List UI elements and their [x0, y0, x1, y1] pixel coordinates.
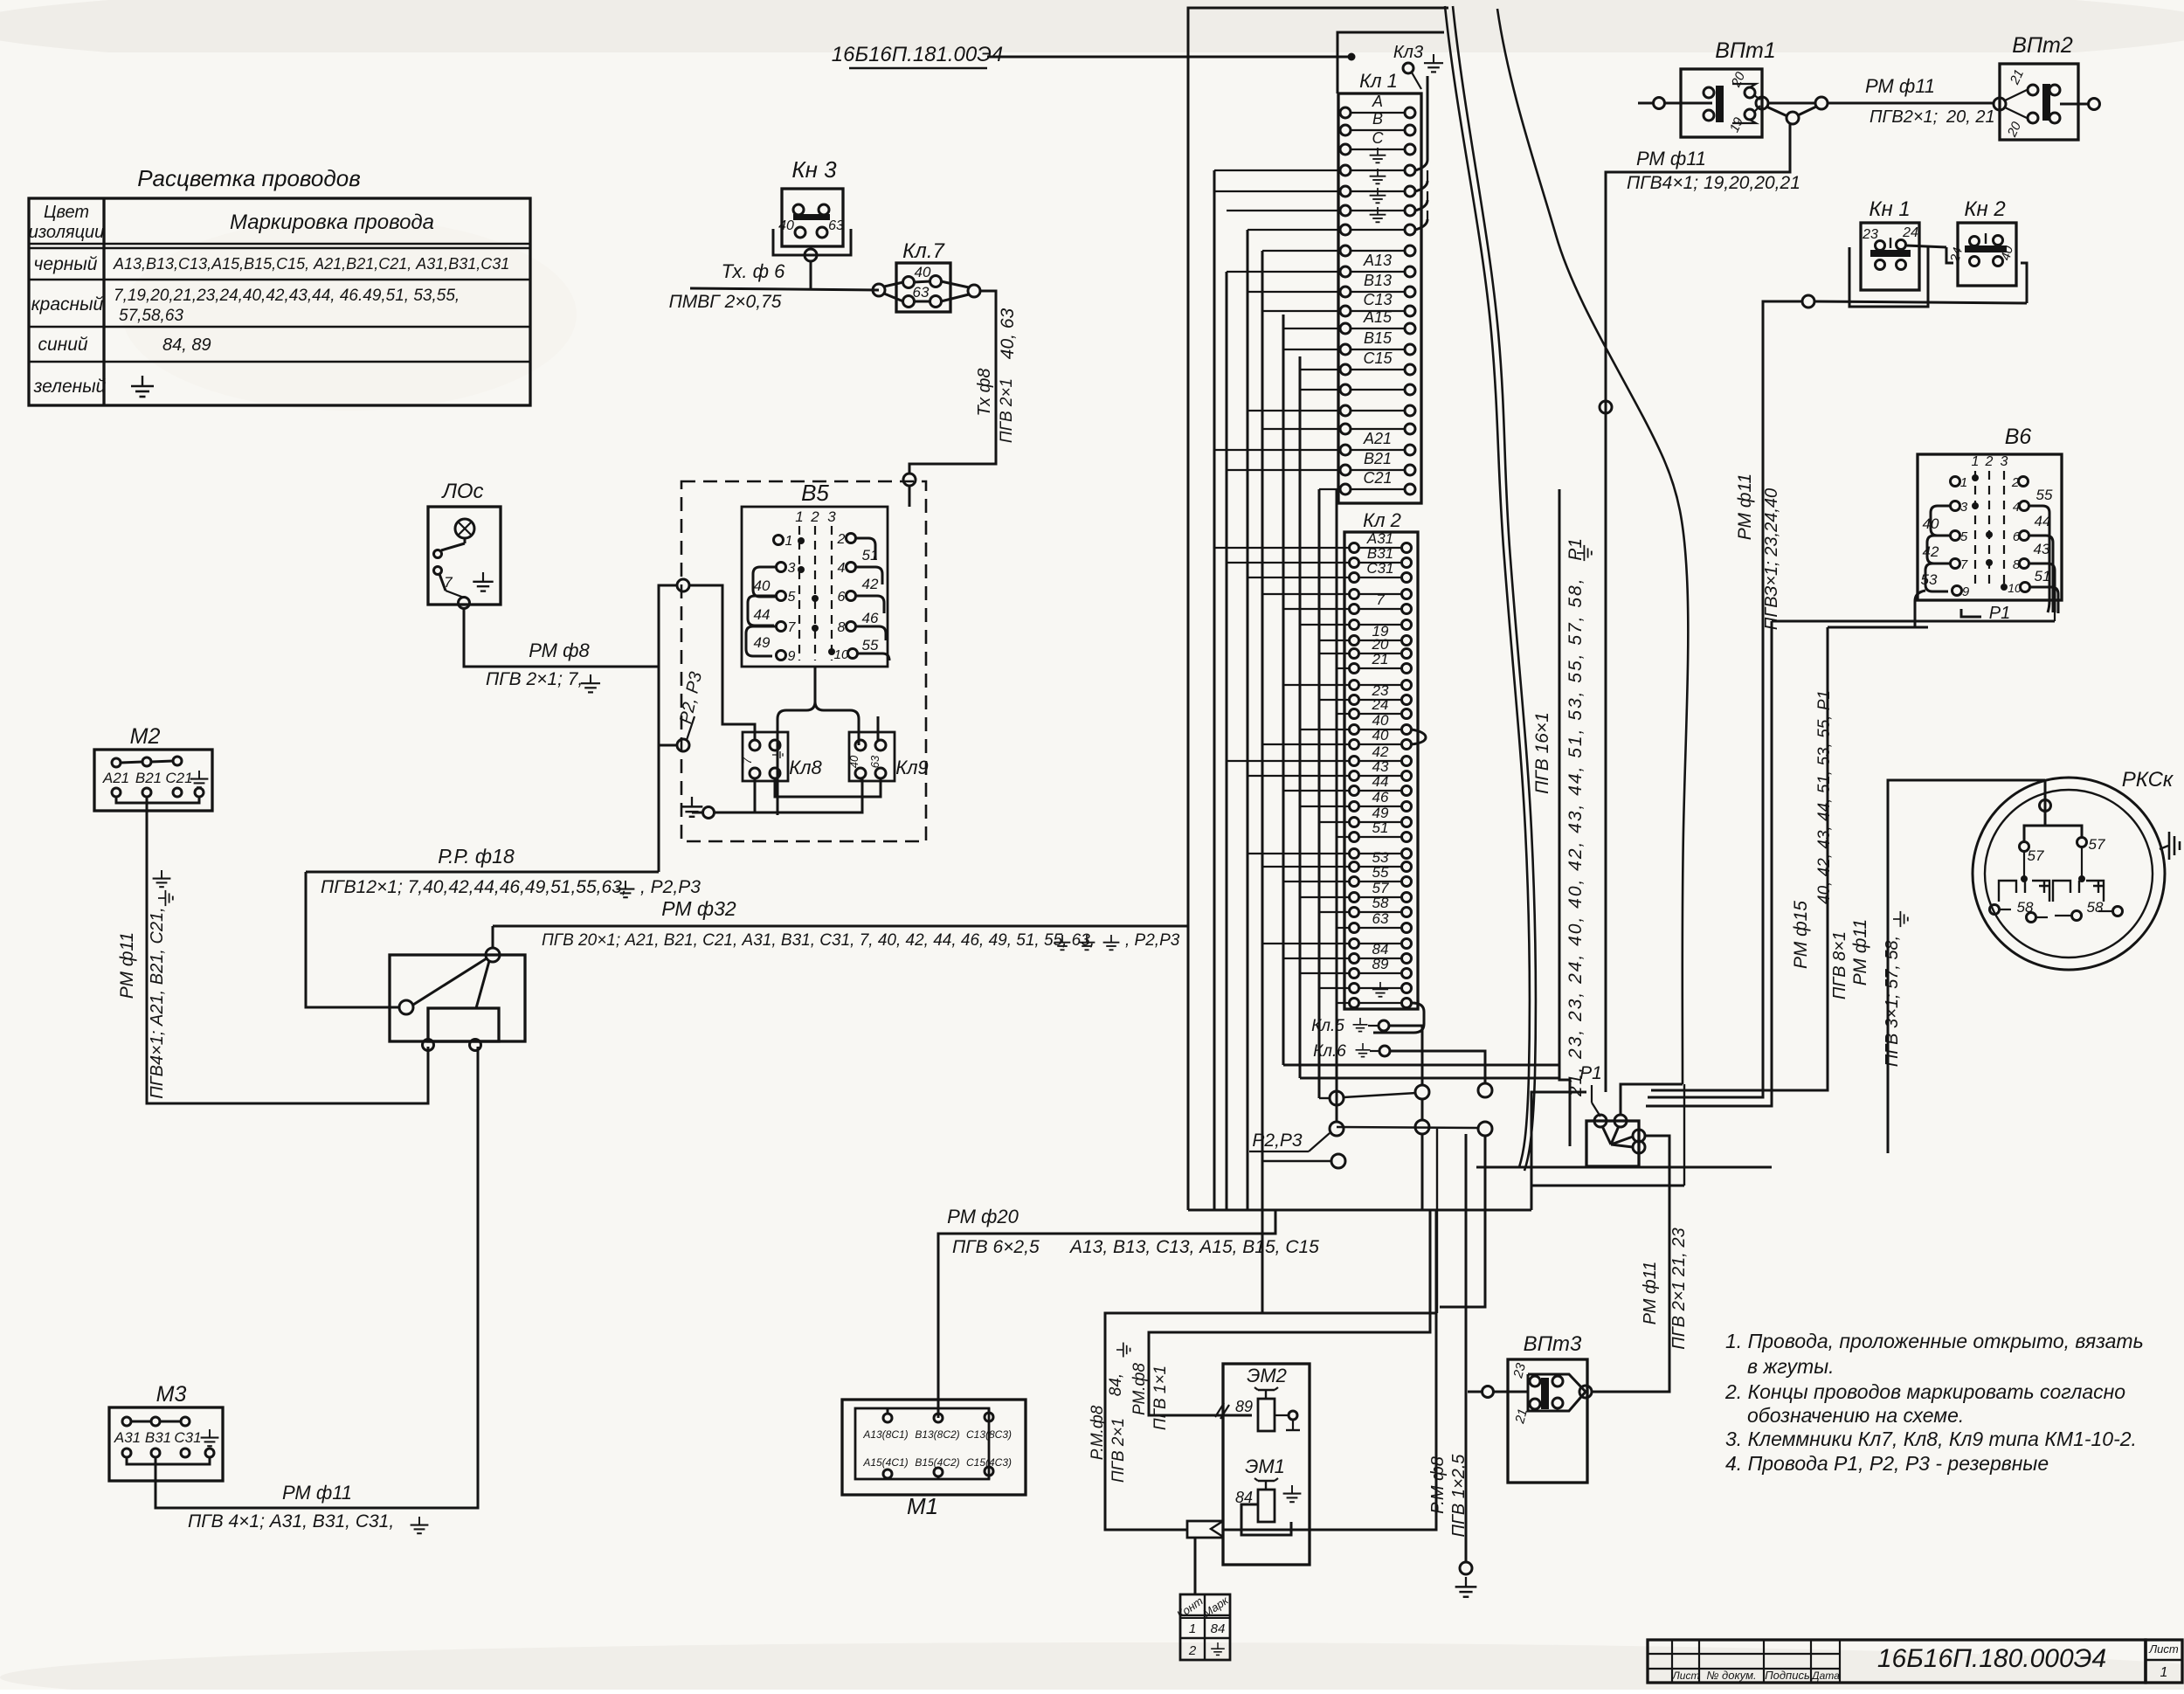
svg-text:синий: синий	[38, 335, 87, 355]
svg-text:ВПт2: ВПт2	[2012, 33, 2073, 58]
svg-text:8: 8	[2013, 557, 2021, 572]
svg-text:М1: М1	[907, 1493, 938, 1519]
svg-text:3: 3	[2001, 454, 2008, 469]
Кл7 contact 40	[903, 277, 915, 288]
wire РКСк feeder	[1888, 780, 2045, 1153]
В5 contact 2	[847, 534, 856, 543]
wire РМ ф11 23,24,40 run	[1648, 301, 1782, 1097]
wire from В5 top node down into box	[909, 486, 911, 507]
svg-text:42: 42	[862, 576, 879, 592]
ground mark near М2 wire	[153, 870, 171, 887]
svg-text:16Б16П.180.000Э4: 16Б16П.180.000Э4	[1877, 1644, 2106, 1673]
Кл2 row 53	[1350, 862, 1359, 872]
lamp ЛОс body	[428, 507, 501, 605]
wire М2 to selector box	[147, 797, 428, 1103]
bundle wire v7	[1226, 272, 1228, 1210]
svg-text:10: 10	[2008, 581, 2022, 595]
wire Кл1 stub	[1248, 410, 1340, 411]
wire Кл1 stub	[1283, 328, 1340, 329]
Кл2 row 58	[1350, 908, 1359, 917]
svg-text:7,19,20,21,23,24,40,42,43,44,: 7,19,20,21,23,24,40,42,43,44, 46.49,51, …	[114, 287, 460, 305]
wire Кл1 stub	[1214, 449, 1340, 451]
svg-text:1: 1	[2160, 1665, 2168, 1680]
wire Р1 to ВПт3 run	[1592, 1136, 1669, 1392]
node j5	[1415, 1120, 1429, 1134]
svg-text:А: А	[1372, 93, 1383, 110]
Кл7 fan wires left	[884, 282, 903, 287]
wire Кл7 to В5 (Тх ф8)	[909, 291, 996, 474]
svg-text:РМ ф8: РМ ф8	[529, 640, 590, 661]
svg-text:Р1: Р1	[1989, 604, 2010, 623]
motor М1 inner box	[855, 1408, 989, 1479]
РКСк right contact	[2077, 838, 2087, 847]
Кл8 contacts	[750, 740, 760, 750]
М1 top contacts	[883, 1414, 892, 1422]
svg-text:РМ ф11: РМ ф11	[1850, 919, 1870, 985]
terminal block Кл.7 body	[896, 263, 950, 312]
wire Кл1 stub	[1227, 210, 1340, 211]
В6 contact 3	[1951, 501, 1960, 511]
harness wavy line right	[1497, 9, 1688, 1084]
Кл2 jumper rows 40-40 right hook	[1412, 729, 1426, 744]
Кл1 row spare	[1340, 245, 1351, 256]
svg-text:Лист: Лист	[1672, 1670, 1700, 1682]
В5 contact 1	[774, 536, 784, 545]
wire ЛОс to В5 (РМ ф8)	[464, 585, 677, 667]
В5 column dashed lines	[798, 526, 800, 660]
В6 dashed columns	[1974, 471, 1976, 587]
svg-text:89: 89	[1235, 1398, 1253, 1415]
В5 dots column	[798, 537, 805, 544]
wire Кл2 stub	[1248, 775, 1349, 777]
РКСк outer circle	[1973, 778, 2165, 970]
switch ВПт1 body	[1681, 69, 1762, 137]
svg-text:Кл8: Кл8	[789, 757, 822, 778]
М2 top jumper contacts	[112, 758, 121, 767]
node ВПт3 right	[1579, 1386, 1592, 1398]
svg-text:А21: А21	[102, 770, 129, 786]
terminal block Кл8 body	[743, 732, 788, 781]
svg-text:А13(8С1): А13(8С1)	[862, 1428, 908, 1441]
svg-text:57: 57	[2089, 836, 2105, 853]
svg-text:40: 40	[915, 264, 931, 280]
svg-text:Тх ф8: Тх ф8	[975, 369, 994, 417]
ВПт1 contacts	[1704, 87, 1714, 98]
svg-text:Кн 3: Кн 3	[791, 156, 837, 183]
РКСк bottom contacts	[1990, 905, 2000, 915]
В5 contact 9	[777, 651, 786, 660]
Кл2 bottom tail	[1373, 1003, 1424, 1033]
Кл2 row 84	[1350, 954, 1359, 964]
wire into РКСк	[2024, 780, 2045, 841]
svg-text:РМ ф32: РМ ф32	[661, 897, 736, 920]
В6 left hook wires	[1931, 506, 1950, 536]
node j3	[1478, 1083, 1492, 1097]
svg-text:55: 55	[1372, 864, 1389, 881]
Кл1 row В15	[1340, 344, 1351, 355]
svg-text:3: 3	[827, 508, 836, 525]
svg-text:Тх. ф 6: Тх. ф 6	[722, 260, 785, 282]
svg-text:10: 10	[834, 647, 849, 662]
wire Кл2 stub	[1300, 896, 1349, 898]
Кл2 row spare	[1350, 849, 1359, 859]
Кл2 row 63	[1350, 923, 1359, 933]
В5 contact 7	[777, 622, 786, 632]
В6 bottom bus left	[1828, 626, 1928, 629]
svg-text:А21: А21	[1363, 430, 1392, 447]
svg-text:РКСк: РКСк	[2122, 768, 2174, 792]
Кл1 row А15	[1340, 323, 1351, 334]
svg-text:С13: С13	[1363, 291, 1392, 308]
ВПт3 left pin	[1482, 1386, 1494, 1398]
В5 left hook wires	[753, 567, 776, 597]
svg-text:1: 1	[795, 508, 803, 525]
wire Кл2 stub	[1300, 806, 1349, 807]
svg-text:Р1: Р1	[1565, 538, 1586, 561]
В6 contact 10	[2021, 583, 2030, 592]
ВПт3 contacts	[1530, 1376, 1540, 1386]
svg-text:ПГВ 2×1 21, 23: ПГВ 2×1 21, 23	[1669, 1227, 1689, 1349]
В5 contact 10	[848, 649, 858, 659]
В6 contact 9	[1952, 586, 1962, 596]
svg-text:Расцветка проводов: Расцветка проводов	[137, 165, 361, 191]
svg-text:1: 1	[1189, 1621, 1196, 1636]
wire Кл2 stub	[1214, 547, 1349, 549]
svg-text:Р.Р. ф18: Р.Р. ф18	[438, 845, 515, 868]
svg-text:ПГВЗ×1; 23,24,40: ПГВЗ×1; 23,24,40	[1762, 488, 1781, 630]
motor М2 body	[94, 750, 212, 811]
Кл2 row 23	[1350, 695, 1359, 705]
wire colour table frame	[29, 198, 530, 405]
wire down from node j6	[1440, 1136, 1485, 1307]
svg-text:А13,В13,С13,А15,В15,С15, А21,В: А13,В13,С13,А15,В15,С15, А21,В21,С21, А3…	[113, 255, 509, 273]
wire Кл1 stub	[1262, 428, 1340, 430]
break mark on 89 wire	[1215, 1403, 1224, 1417]
М2 bottom bus	[116, 797, 199, 803]
node РМ ф8 on В5 edge	[677, 579, 689, 591]
svg-text:А15(4С1): А15(4С1)	[862, 1456, 908, 1469]
wire Кл2 stub	[1227, 562, 1349, 564]
ЭМ1 ground	[1283, 1485, 1302, 1502]
bundle lower horizontal 3	[1300, 1077, 1559, 1080]
wire Кл1 stub	[1227, 469, 1340, 471]
Р1 nodes	[1594, 1115, 1607, 1127]
svg-text:Кн 2: Кн 2	[1964, 197, 2005, 221]
Кн1 bracket	[1849, 247, 1928, 307]
wire Кл1 stub	[1248, 229, 1340, 231]
switch В5 inner box	[742, 507, 888, 667]
wires from В5 bottom to Кл8/Кл9	[778, 667, 815, 815]
Кн1 contacts	[1876, 241, 1885, 251]
Кл1 row spare	[1340, 405, 1351, 416]
svg-text:зеленый: зеленый	[33, 377, 107, 397]
svg-text:, Р2,Р3: , Р2,Р3	[1125, 931, 1180, 950]
lamp symbol	[455, 519, 474, 538]
svg-text:ПГВ 3×1; 57, 58,: ПГВ 3×1; 57, 58,	[1883, 936, 1902, 1067]
svg-text:1: 1	[1972, 454, 1980, 469]
ground terminal bottom middle	[1460, 1562, 1472, 1574]
В5 contact 6	[847, 591, 856, 601]
svg-text:Кл9: Кл9	[895, 757, 929, 778]
svg-text:ПГВ 1×2,5: ПГВ 1×2,5	[1449, 1454, 1469, 1538]
Кл1 row GND	[1340, 186, 1351, 197]
Кл2 row spare	[1350, 590, 1359, 599]
В6 right hook wires	[2028, 506, 2049, 612]
Кл1 row В	[1340, 125, 1351, 135]
harness wavy line pair	[1445, 6, 1530, 1167]
svg-text:40: 40	[847, 755, 860, 768]
ground in ЛОс	[473, 572, 493, 591]
svg-text:ПГВ 16×1: ПГВ 16×1	[1532, 712, 1552, 794]
node j2	[1415, 1085, 1429, 1099]
svg-text:Дата: Дата	[1810, 1670, 1840, 1682]
svg-text:обозначению на схеме.: обозначению на схеме.	[1747, 1404, 1964, 1427]
Кл2 row 57	[1350, 893, 1359, 902]
svg-text:Кл 2: Кл 2	[1363, 509, 1401, 531]
svg-text:44: 44	[754, 606, 771, 623]
svg-text:6: 6	[838, 590, 846, 605]
Кл2 row 43	[1350, 771, 1359, 781]
svg-text:С31: С31	[174, 1429, 201, 1446]
svg-text:ПГВ12×1; 7,40,42,44,46,49,51: ПГВ12×1; 7,40,42,44,46,49,51,55,63,	[321, 877, 627, 897]
node ВПт2 left	[1994, 98, 2006, 110]
svg-text:С: С	[1372, 129, 1385, 147]
Кл1 row В13	[1340, 287, 1351, 297]
lamp switch contacts	[434, 550, 442, 558]
wire Кл2 stub	[1319, 699, 1349, 701]
wire Кл2 stub	[1262, 743, 1349, 745]
svg-text:1: 1	[1960, 475, 1967, 490]
М2 ground	[190, 771, 209, 787]
wire Кл2 stub	[1283, 684, 1349, 686]
wire 89 feeder	[1149, 1210, 1430, 1415]
bundle wire v4	[1318, 489, 1321, 1098]
wire Кл2 stub	[1248, 853, 1349, 854]
svg-text:4: 4	[2013, 500, 2020, 515]
node on В5 enclosure top	[903, 474, 916, 486]
ЭМ enclosure frame	[1105, 1210, 1436, 1530]
wire j2 down	[1421, 1099, 1424, 1120]
svg-text:В: В	[1372, 110, 1383, 128]
Кл2 row 24	[1350, 709, 1359, 719]
svg-text:№ докум.: № докум.	[1706, 1669, 1756, 1682]
svg-text:63: 63	[868, 755, 881, 768]
wire РМ ф32 horizontal	[493, 925, 1189, 928]
wire Кл1 stub	[1319, 488, 1340, 490]
wire 7 inside В5 to Кл8	[689, 585, 755, 740]
svg-text:ЛОс: ЛОс	[440, 480, 483, 503]
М3 bottom bus	[127, 1457, 210, 1464]
svg-text:С21: С21	[165, 770, 192, 786]
Кл1 row С	[1340, 144, 1351, 155]
ground at РКСк	[2160, 846, 2168, 849]
wire В6 right bundle run	[1646, 621, 1772, 1106]
bundle wire v8	[1261, 251, 1264, 1313]
motor М3 body	[109, 1407, 223, 1481]
Кл2 row В31	[1350, 558, 1359, 568]
wire Кл2 stub	[1262, 943, 1349, 944]
svg-text:ПГВ 2×1; 7,: ПГВ 2×1; 7,	[486, 669, 583, 689]
Кл2 row spare	[1350, 681, 1359, 690]
wire Тх.ф6 horizontal	[690, 288, 879, 290]
title block cells	[1671, 1640, 1673, 1683]
wire Кн3 to Тх.ф6 line	[810, 261, 812, 288]
bundle wire v5	[1336, 489, 1338, 1122]
wire Кл2 stub	[1319, 911, 1349, 913]
В6 bottom bus right	[1772, 620, 2055, 623]
ВПт3 contact outline	[1528, 1374, 1586, 1411]
ВПт2 contact wires	[2005, 90, 2027, 100]
РКСк right brush	[2053, 881, 2104, 902]
svg-text:Кл3: Кл3	[1393, 43, 1423, 62]
wire 21,23,23,24,40 bundle	[1559, 489, 1570, 1146]
svg-text:Р2,Р3: Р2,Р3	[1252, 1130, 1303, 1151]
wire j5 to frame corner	[1436, 1129, 1438, 1313]
Кл2 row spare	[1350, 939, 1359, 949]
svg-text:ПГВ 6×2,5: ПГВ 6×2,5	[952, 1237, 1040, 1257]
svg-text:В31: В31	[145, 1429, 171, 1446]
svg-text:РМ ф11: РМ ф11	[282, 1482, 352, 1504]
Кл1 row GND	[1340, 165, 1351, 176]
svg-text:24: 24	[1902, 225, 1918, 240]
svg-text:М2: М2	[130, 724, 161, 749]
junction fan wires	[413, 958, 487, 1005]
wire Кл2 stub	[1337, 927, 1349, 929]
crossing wires to node	[1787, 112, 1799, 124]
svg-text:изоляции: изоляции	[29, 223, 105, 242]
Кл2 row 7	[1350, 605, 1359, 614]
svg-text:В21: В21	[1364, 450, 1392, 467]
wire Кл1 stub	[1300, 369, 1340, 370]
ВПт2 right pin wire	[2060, 103, 2088, 106]
svg-text:Цвет: Цвет	[44, 203, 89, 222]
svg-text:ПГВ 2×1: ПГВ 2×1	[998, 378, 1016, 443]
Кл2 row 51	[1350, 833, 1359, 842]
wire Кл2 stub	[1319, 640, 1349, 641]
junction box inner box	[428, 1008, 499, 1041]
wire Кл6 to node	[1390, 1051, 1485, 1083]
Кл1 row GND	[1340, 205, 1351, 216]
svg-text:черный: черный	[34, 254, 98, 274]
svg-text:51: 51	[1372, 819, 1389, 836]
push button Кн2 body	[1958, 223, 2016, 286]
switch В5 enclosure (dashed)	[681, 481, 926, 841]
В6 contact 7	[1951, 559, 1960, 569]
svg-text:3. Клеммники Кл7, Кл8, Кл9 т: 3. Клеммники Кл7, Кл8, Кл9 типа КМ1-10-2…	[1725, 1428, 2137, 1450]
cabinet bottom bundle	[1188, 1209, 1531, 1212]
Кл1 row С21	[1340, 484, 1351, 494]
Кл2 row А31	[1350, 543, 1359, 553]
wire Кл2 stub	[1319, 653, 1349, 654]
Кл2 row spare	[1350, 620, 1359, 630]
wire connector to contact table	[1194, 1538, 1197, 1594]
svg-text:Р.М ф8: Р.М ф8	[1428, 1456, 1448, 1514]
svg-text:ПГВ 4×1; А31, В31, С31,: ПГВ 4×1; А31, В31, С31,	[188, 1511, 394, 1532]
wire РМ ф15 run	[1651, 627, 1828, 1090]
ВПт1 contact wires	[1732, 84, 1756, 87]
wire РМ ф32 stub	[492, 926, 494, 948]
svg-text:РМ ф11: РМ ф11	[1636, 148, 1706, 169]
svg-text:42: 42	[1923, 543, 1939, 560]
wire nodes row1	[1319, 1097, 1330, 1099]
node left of Кл7	[873, 284, 885, 296]
Кл2 row 55	[1350, 877, 1359, 887]
svg-text:7: 7	[444, 574, 453, 591]
В6 contact 4	[2020, 501, 2029, 511]
relay Р1 body	[1586, 1121, 1639, 1166]
Кл1 row А13	[1340, 266, 1351, 277]
node left of junction box	[399, 1000, 413, 1014]
svg-text:63: 63	[828, 218, 844, 233]
bundle wire v2	[1282, 315, 1285, 1065]
svg-text:ПГВ 8×1: ПГВ 8×1	[1830, 931, 1849, 999]
svg-text:4. Провода Р1, Р2, Р3 - резер: 4. Провода Р1, Р2, Р3 - резервные	[1725, 1452, 2049, 1475]
svg-text:20, 21: 20, 21	[1946, 107, 1995, 127]
svg-text:В6: В6	[2005, 425, 2032, 449]
svg-text:7: 7	[740, 757, 754, 764]
svg-text:23: 23	[1862, 227, 1878, 242]
title block frame	[1648, 1640, 2146, 1683]
svg-text:7: 7	[788, 620, 797, 635]
wire from Р2Р3 node to left	[659, 744, 677, 747]
svg-text:58: 58	[2087, 899, 2104, 916]
РКСк left brush	[1999, 881, 2049, 902]
svg-text:2: 2	[2011, 475, 2020, 490]
push button Кн3 body	[782, 189, 843, 246]
svg-text:6: 6	[2013, 529, 2021, 544]
svg-text:А13, В13, С13, А15, В15, С15: А13, В13, С13, А15, В15, С15	[1068, 1237, 1319, 1257]
svg-text:84, 89: 84, 89	[162, 335, 211, 355]
svg-text:46: 46	[862, 610, 879, 626]
В6 contact 2	[2019, 477, 2028, 487]
wire Кл1 stub	[1300, 389, 1340, 391]
Кл1 row В21	[1340, 465, 1351, 475]
svg-text:40: 40	[754, 577, 771, 594]
svg-text:3: 3	[1960, 500, 1968, 515]
В5 right hook wires	[856, 538, 875, 559]
wire Кл1 stub	[1248, 291, 1340, 293]
wire Кл2 stub	[1283, 608, 1349, 610]
svg-text:63: 63	[1372, 910, 1389, 927]
Р1 fan wires	[1602, 1126, 1611, 1144]
wire РМ ф11 to ВПт2	[1828, 102, 1994, 105]
wire node j7 stub	[1262, 1160, 1331, 1162]
svg-text:РМ.ф8: РМ.ф8	[1130, 1363, 1149, 1415]
wire Кл2 stub	[1300, 729, 1349, 730]
wire Кл2 stub	[1248, 577, 1349, 578]
switch ВПт2 body	[2000, 64, 2078, 140]
wire Кл5 to node	[1389, 1026, 1422, 1085]
РКСк left contact	[2020, 842, 2029, 852]
svg-text:А31: А31	[114, 1429, 141, 1446]
junction box body	[390, 955, 525, 1041]
wire down to ground terminal	[1465, 1134, 1468, 1562]
terminal strip Кл2 body	[1344, 532, 1418, 1009]
svg-text:В13: В13	[1364, 272, 1392, 289]
wire Кл1 stub	[1227, 271, 1340, 273]
node on 19-20 run	[1600, 401, 1612, 413]
terminal strip Кл1 body	[1338, 93, 1421, 503]
wire Кл2 stub	[1227, 760, 1349, 762]
svg-text:ПГВ 1×1: ПГВ 1×1	[1151, 1366, 1170, 1430]
long bottom horizontal	[1476, 1166, 1772, 1169]
svg-text:7: 7	[1376, 591, 1385, 608]
svg-text:С15: С15	[1363, 349, 1393, 367]
svg-text:С13(8С3): С13(8С3)	[966, 1428, 1012, 1441]
node Р2,Р3 on В5 left edge	[677, 739, 689, 751]
В5 contact 5	[777, 591, 786, 601]
В5 contact 4	[847, 563, 856, 572]
